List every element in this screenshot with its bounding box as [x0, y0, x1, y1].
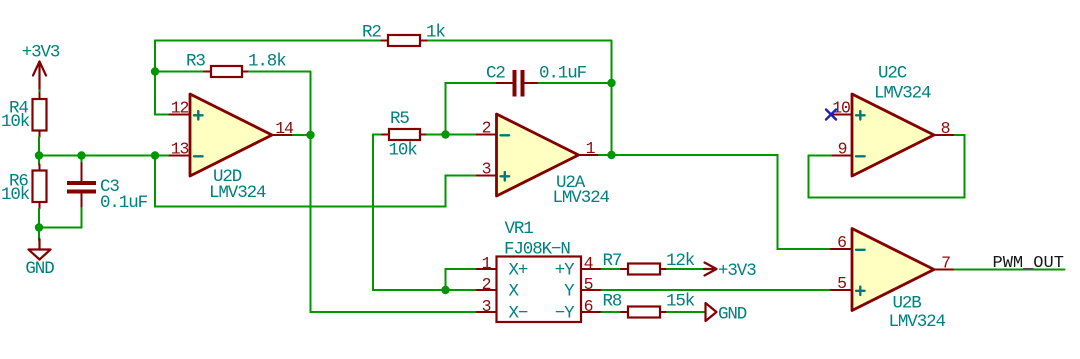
resistor R8 [603, 292, 695, 318]
svg-text:1.8k: 1.8k [248, 52, 286, 72]
svg-text:+3V3: +3V3 [718, 261, 756, 281]
svg-text:14: 14 [275, 119, 294, 138]
svg-text:7: 7 [941, 254, 950, 273]
svg-text:1k: 1k [426, 23, 445, 43]
svg-text:0.1uF: 0.1uF [100, 193, 148, 213]
junction U2A feedback branch tap [151, 151, 159, 159]
svg-text:X−: X− [509, 304, 528, 324]
svg-text:LMV324: LMV324 [889, 312, 946, 332]
svg-text:R7: R7 [603, 251, 622, 271]
wire divider node down and across to U2A pin 3 [155, 156, 477, 207]
svg-text:5: 5 [584, 275, 593, 294]
svg-text:R5: R5 [390, 109, 409, 129]
svg-text:X+: X+ [509, 261, 528, 281]
wire C2 right to output net [539, 82, 612, 84]
wire U2C unity feedback loop [809, 135, 965, 198]
junction C2 left branch node [441, 130, 449, 138]
wire VR1 pin 1 branch [446, 269, 477, 290]
svg-text:GND: GND [718, 305, 747, 325]
svg-text:LMV324: LMV324 [209, 183, 266, 203]
svg-text:+3V3: +3V3 [22, 43, 60, 63]
junction U2A output node [607, 151, 615, 159]
wire +3V3 to R4 [39, 90, 41, 94]
svg-text:+Y: +Y [555, 261, 575, 281]
svg-text:LMV324: LMV324 [874, 84, 931, 104]
ground symbol GND (right) [706, 303, 747, 325]
wire R7 to +3V3 [667, 268, 705, 270]
svg-text:LMV324: LMV324 [553, 188, 610, 208]
wire VR1 pin 6 to R8 [602, 311, 622, 313]
svg-text:Y: Y [564, 282, 575, 302]
wire top net through R2 [155, 41, 612, 156]
svg-text:6: 6 [837, 233, 846, 252]
wire divider node to U2D pin 13 [39, 155, 170, 157]
junction R3 left node [151, 67, 159, 75]
wire VR1 pin 4 to R7 [602, 268, 622, 270]
svg-text:13: 13 [171, 140, 189, 159]
wire R3 right down to U2D output and VR1 X- input [249, 72, 477, 313]
power symbol +3V3 (top left) [22, 43, 60, 92]
resistor R6 [1, 156, 47, 209]
svg-text:X: X [509, 282, 520, 302]
svg-text:2: 2 [482, 119, 491, 138]
svg-text:3: 3 [482, 160, 491, 179]
op-amp U2C [831, 64, 955, 177]
svg-text:FJ08K−N: FJ08K−N [504, 240, 570, 260]
svg-text:10k: 10k [1, 185, 30, 205]
svg-text:10k: 10k [1, 112, 30, 132]
multiplier VR1 [477, 219, 602, 324]
wire X input net vertical to VR1 [373, 135, 477, 291]
svg-text:15k: 15k [666, 292, 695, 312]
wire R5 right to U2A pin 2 [427, 134, 477, 136]
svg-text:U2C: U2C [878, 64, 907, 84]
svg-text:PWM_OUT: PWM_OUT [993, 254, 1064, 273]
svg-text:2: 2 [482, 275, 491, 294]
svg-text:R8: R8 [603, 292, 622, 312]
wire U2B output [955, 269, 1065, 271]
svg-text:R2: R2 [362, 23, 381, 43]
svg-text:1: 1 [482, 254, 492, 273]
svg-text:12: 12 [171, 99, 189, 118]
no-connect marker on U2C pin 10 [826, 110, 836, 120]
wire R8 to GND [667, 311, 706, 313]
resistor R4 [1, 93, 47, 137]
wire R6 bottom to ground node [38, 209, 40, 228]
capacitor C2 [446, 64, 587, 135]
svg-text:0.1uF: 0.1uF [539, 64, 587, 84]
svg-text:3: 3 [482, 297, 491, 316]
svg-text:9: 9 [838, 140, 847, 159]
wire R5 left corner [373, 134, 382, 136]
junction C3 top tap [77, 151, 85, 159]
svg-text:10k: 10k [389, 141, 418, 161]
wire U2C pin 9 stub [809, 155, 832, 157]
wire U2D output to junction [293, 134, 311, 136]
junction VR1 X+/X node [441, 286, 449, 294]
svg-text:GND: GND [25, 259, 54, 279]
junction U2D output node [306, 131, 314, 139]
svg-text:10: 10 [832, 99, 850, 118]
svg-text:C2: C2 [486, 64, 505, 84]
svg-text:4: 4 [584, 254, 594, 273]
junction C2 right node [607, 79, 615, 87]
op-amp U2A [477, 114, 610, 208]
junction ground node [35, 223, 43, 231]
op-amp U2D [170, 94, 294, 203]
wire R3 left segment [155, 71, 204, 73]
wire VR1 Y output to U2B pin 5 [602, 289, 832, 291]
wire to U2D pin 12 [155, 114, 170, 116]
junction divider node A [35, 151, 43, 159]
svg-text:VR1: VR1 [505, 219, 534, 239]
capacitor C3 [67, 156, 148, 214]
svg-text:U2B: U2B [893, 294, 922, 314]
wire C3 bottom to ground node [39, 208, 82, 228]
wire U2D non-inverting feedback vertical [154, 41, 156, 115]
power symbol +3V3 (right) [704, 261, 756, 281]
wire R4 bottom to divider node [38, 137, 40, 156]
resistor R3 [186, 52, 286, 78]
svg-text:R3: R3 [186, 52, 205, 72]
svg-text:1: 1 [586, 139, 596, 158]
svg-text:6: 6 [584, 297, 593, 316]
svg-text:8: 8 [941, 119, 950, 138]
resistor R2 [362, 23, 445, 47]
resistor R5 [382, 109, 427, 161]
resistor R7 [603, 251, 695, 275]
svg-text:5: 5 [837, 274, 846, 293]
svg-text:−Y: −Y [555, 304, 575, 324]
ground symbol GND (left) [25, 228, 54, 280]
op-amp U2B [831, 229, 955, 333]
wire U2A output across and down to U2B pin 6 [599, 155, 831, 249]
